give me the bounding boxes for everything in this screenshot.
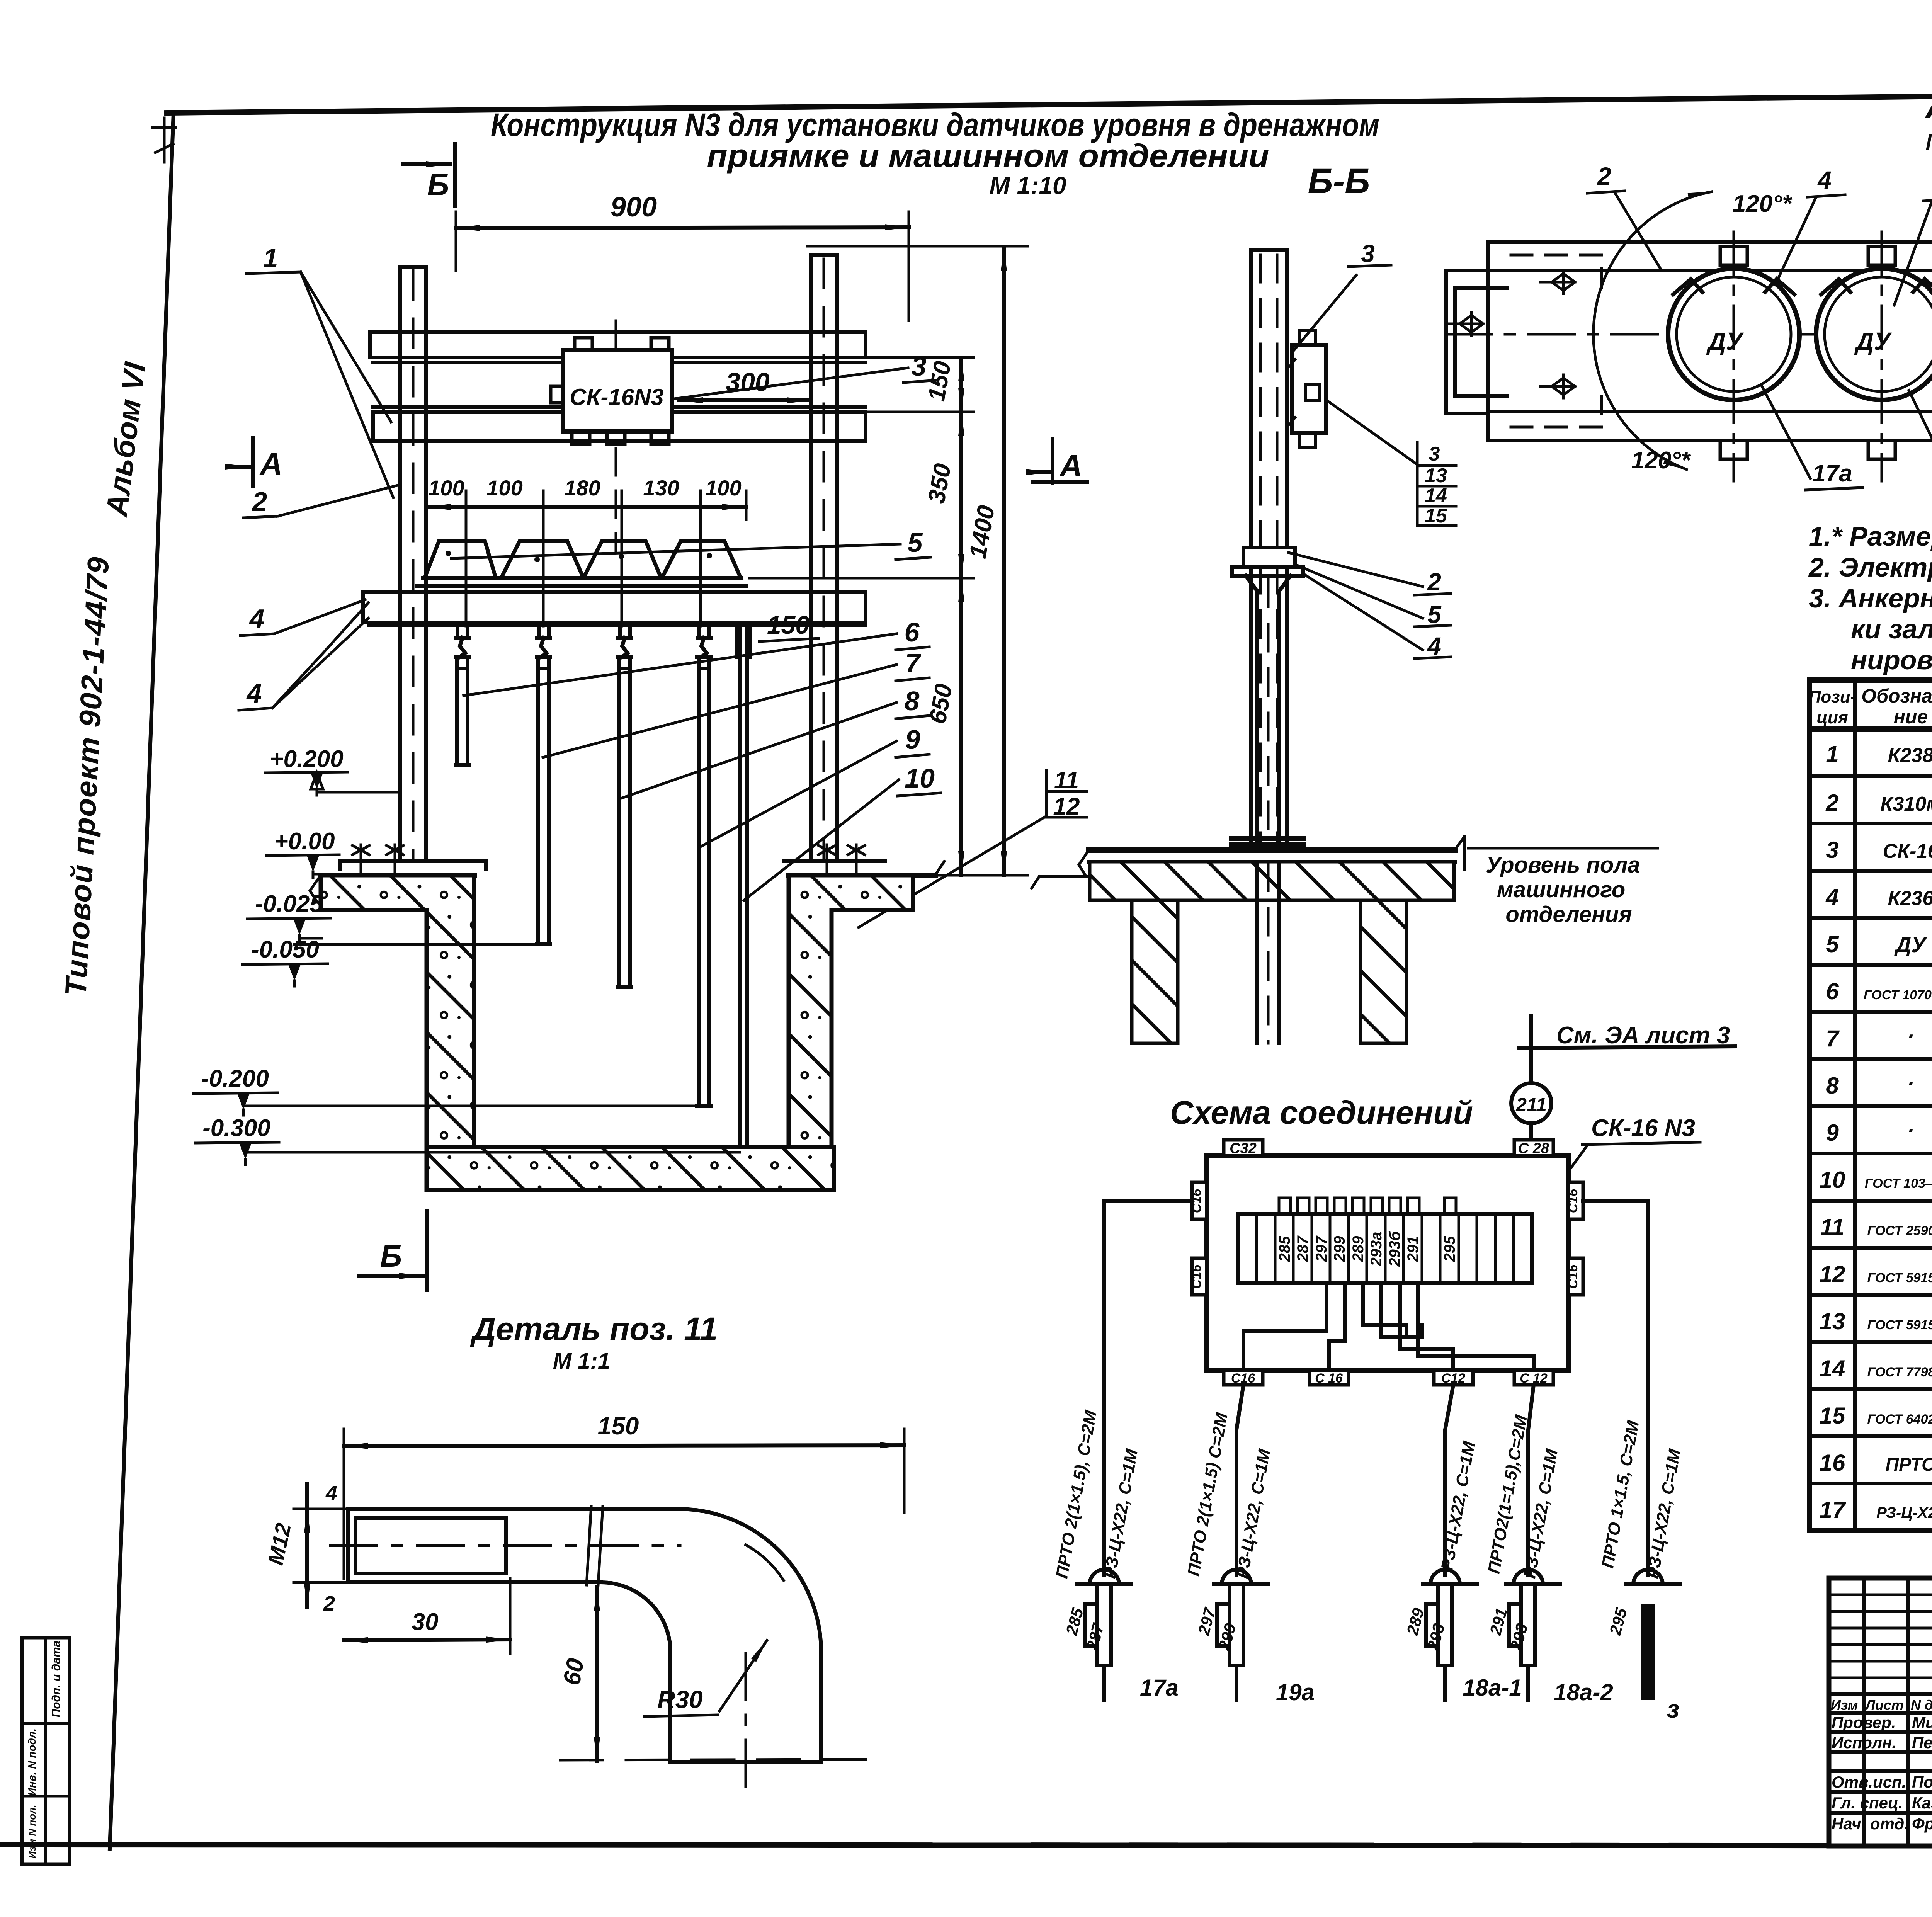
svg-text:1.* Размеры для справок: 1.* Размеры для справок <box>1809 521 1932 551</box>
svg-text:С16: С16 <box>1189 1264 1204 1289</box>
level sensor DU 19a <box>1816 232 1932 481</box>
top border <box>167 90 1932 113</box>
svg-text:3: 3 <box>1361 240 1375 267</box>
svg-text:4: 4 <box>249 604 265 634</box>
cable 4 (18a-2) <box>1528 1385 1534 1575</box>
svg-text:289: 289 <box>1350 1236 1367 1262</box>
left connectors C16 <box>1192 1182 1207 1219</box>
leaders 6 7 8 9 10 <box>464 634 896 696</box>
svg-text:3: 3 <box>912 351 927 381</box>
svg-text:13: 13 <box>1425 464 1447 487</box>
left concrete slab+wall <box>321 875 474 1147</box>
svg-text:211: 211 <box>1515 1094 1547 1116</box>
svg-text:6: 6 <box>1826 978 1839 1004</box>
corner mark <box>153 118 176 162</box>
svg-text:900: 900 <box>611 192 657 223</box>
svg-text:2: 2 <box>323 1592 335 1615</box>
svg-text:М12: М12 <box>263 1521 296 1567</box>
rail K238 lower <box>373 407 866 441</box>
svg-text:А: А <box>1059 448 1082 483</box>
svg-text:16: 16 <box>1820 1450 1845 1476</box>
cable 1 (17a) <box>1104 1201 1192 1575</box>
section mark Б top <box>403 144 455 206</box>
svg-text:С16: С16 <box>1566 1189 1580 1213</box>
svg-text:Альбом VI: Альбом VI <box>99 360 152 519</box>
svg-text:297: 297 <box>1313 1235 1330 1262</box>
strip under sensors <box>417 578 746 586</box>
left end bracket <box>1446 270 1507 413</box>
hanger fittings <box>456 623 711 657</box>
left border <box>110 113 173 1849</box>
shelf K236 <box>363 592 866 625</box>
svg-text:ПРТО: ПРТО <box>1886 1454 1932 1475</box>
right dimension chains <box>750 246 1028 875</box>
svg-text:120°*: 120°* <box>1733 191 1793 217</box>
svg-text:з: з <box>1667 1695 1680 1723</box>
svg-text:293а: 293а <box>1368 1232 1385 1267</box>
svg-text:Нач. отд.: Нач. отд. <box>1832 1815 1909 1833</box>
svg-text:1: 1 <box>263 243 278 273</box>
svg-text:Обозначе-: Обозначе- <box>1861 685 1932 707</box>
svg-text:8: 8 <box>1826 1073 1839 1099</box>
svg-text:17а: 17а <box>1812 460 1852 487</box>
post K310m section <box>1251 250 1287 844</box>
svg-text:Фролов: Фролов <box>1912 1815 1932 1833</box>
svg-text:нировании приямка: нировании приямка <box>1851 645 1932 675</box>
svg-text:100: 100 <box>705 476 741 500</box>
svg-text:2: 2 <box>1427 568 1441 596</box>
svg-text:Лист: Лист <box>1864 1697 1904 1713</box>
svg-text:287: 287 <box>1294 1235 1311 1262</box>
svg-text:4: 4 <box>1817 166 1832 194</box>
svg-text:РЗ-Ц-Х22: РЗ-Ц-Х22 <box>1876 1504 1932 1521</box>
section mark Б bottom <box>359 1211 427 1290</box>
bottom connectors <box>1224 1370 1263 1385</box>
svg-text:10: 10 <box>905 763 935 793</box>
svg-text:293б: 293б <box>1386 1231 1403 1267</box>
svg-text:120°*: 120°* <box>1631 447 1691 474</box>
svg-text:А: А <box>259 447 282 481</box>
connection box outline <box>1207 1156 1568 1370</box>
sensor symbols <box>1077 1570 1680 1700</box>
level sensor DU 17a <box>1668 232 1799 481</box>
svg-text:1400: 1400 <box>964 503 1000 561</box>
floor level label <box>1464 837 1658 869</box>
svg-text:300: 300 <box>726 367 770 397</box>
internal wires <box>1243 1283 1534 1370</box>
svg-text:отделения: отделения <box>1505 902 1632 927</box>
svg-text:С32: С32 <box>1230 1140 1257 1157</box>
svg-text:100: 100 <box>428 476 464 500</box>
pit walls below <box>1132 900 1178 1043</box>
svg-text:2: 2 <box>1825 790 1838 816</box>
svg-text:291: 291 <box>1405 1236 1422 1262</box>
svg-text:150: 150 <box>767 611 810 639</box>
svg-text:РЗ-Ц-Х22, С=1М: РЗ-Ц-Х22, С=1М <box>1233 1447 1274 1580</box>
svg-text:Подп. и дата: Подп. и дата <box>50 1641 63 1718</box>
svg-text:Типовой проект 902-1-44/79: Типовой проект 902-1-44/79 <box>58 555 116 997</box>
svg-text:С16: С16 <box>1566 1264 1580 1289</box>
left grid <box>1864 1578 1932 1846</box>
connector C32 <box>1224 1140 1263 1156</box>
collar and base of post <box>1243 548 1295 567</box>
svg-text:·: · <box>1907 1024 1915 1048</box>
svg-text:295: 295 <box>1441 1236 1458 1262</box>
rail band <box>1488 242 1932 441</box>
svg-text:10: 10 <box>1820 1167 1845 1193</box>
svg-text:ГОСТ 7798-70: ГОСТ 7798-70 <box>1867 1365 1932 1379</box>
svg-text:299: 299 <box>1331 1236 1348 1262</box>
svg-text:К310м: К310м <box>1880 793 1932 815</box>
svg-text:Б: Б <box>380 1239 402 1273</box>
dim M12 <box>294 1509 348 1582</box>
svg-text:7: 7 <box>905 648 922 678</box>
svg-text:9: 9 <box>905 725 920 755</box>
svg-text:СК-16: СК-16 <box>1883 840 1932 862</box>
svg-text:17а: 17а <box>1140 1675 1179 1701</box>
leader 3 <box>674 368 908 399</box>
svg-text:-0.300: -0.300 <box>202 1115 270 1141</box>
svg-text:3. Анкерные болты поз. 11 под: 3. Анкерные болты поз. 11 под стой- <box>1809 583 1932 613</box>
120 deg arc and labels <box>1594 192 1712 469</box>
rail K238 upper <box>370 332 866 362</box>
svg-text:ПРТО 1×1.5, С=2М: ПРТО 1×1.5, С=2М <box>1598 1419 1643 1570</box>
svg-text:ДУ: ДУ <box>1706 327 1744 355</box>
svg-text:М 1:5: М 1:5 <box>1925 129 1932 155</box>
svg-text:13: 13 <box>1820 1308 1845 1334</box>
svg-text:ки заложить при основном бето-: ки заложить при основном бето- <box>1851 614 1932 644</box>
svg-text:180: 180 <box>564 476 600 500</box>
svg-text:+0.00: +0.00 <box>274 828 335 855</box>
svg-text:12: 12 <box>1820 1261 1845 1287</box>
leader 5 <box>451 544 900 558</box>
svg-text:6: 6 <box>905 617 920 647</box>
svg-text:7: 7 <box>1826 1026 1840 1051</box>
svg-text:Отв.исп.: Отв.исп. <box>1832 1773 1906 1791</box>
junction box side view <box>1292 345 1326 433</box>
svg-text:приямке и машинном отделении: приямке и машинном отделении <box>707 138 1269 174</box>
strip poz.10 <box>740 627 747 1152</box>
svg-text:N докум.: N докум. <box>1911 1697 1932 1713</box>
svg-text:К236: К236 <box>1888 887 1932 910</box>
level sensors (trapezoids) <box>425 541 496 578</box>
svg-text:3: 3 <box>1826 837 1838 863</box>
svg-text:14: 14 <box>1425 485 1447 507</box>
bottom-left mini table <box>22 1638 70 1864</box>
svg-text:ПРТО 2(1×1.5), С=2М: ПРТО 2(1×1.5), С=2М <box>1052 1408 1100 1580</box>
svg-text:19а: 19а <box>1276 1679 1315 1705</box>
dim 150 <box>344 1429 904 1579</box>
svg-text:ПРТО2(1=1.5),С=2М: ПРТО2(1=1.5),С=2М <box>1484 1413 1531 1575</box>
pipe through floor <box>1257 862 1279 1043</box>
svg-text:·: · <box>1907 1118 1915 1142</box>
svg-text:+0.200: +0.200 <box>269 746 343 772</box>
svg-text:2: 2 <box>252 486 267 517</box>
svg-text:350: 350 <box>923 462 956 506</box>
left margin vertical texts <box>58 360 152 997</box>
rotated terminal numbers at sensors <box>1062 1606 1631 1653</box>
tube poz.7 <box>537 657 550 944</box>
post K310m right <box>811 255 837 861</box>
svg-text:А-А: А-А <box>1925 86 1932 126</box>
base plate <box>1232 839 1303 844</box>
svg-text:18а-2: 18а-2 <box>1554 1679 1613 1705</box>
base plates and anchor bolts <box>340 861 486 869</box>
svg-text:ГОСТ 103— 76: ГОСТ 103— 76 <box>1865 1176 1932 1191</box>
lower labels 17a 19a 18a-1 18a-2 <box>1762 386 1862 490</box>
table grid <box>1810 680 1932 1531</box>
svg-text:-0.050: -0.050 <box>251 936 319 963</box>
svg-text:2: 2 <box>1597 162 1611 190</box>
svg-text:4: 4 <box>1427 632 1441 660</box>
svg-text:2. Электрод Э-42 ГОСТ 9467-6: 2. Электрод Э-42 ГОСТ 9467-60 <box>1808 552 1932 582</box>
svg-text:ГОСТ 5915-70: ГОСТ 5915-70 <box>1867 1271 1932 1285</box>
junction box CK-16 N3 <box>563 350 672 432</box>
right concrete slab+wall <box>789 875 913 1147</box>
svg-text:150: 150 <box>598 1412 639 1440</box>
svg-text:100: 100 <box>486 476 522 500</box>
pit floor slab <box>427 1147 834 1190</box>
svg-text:15: 15 <box>1425 505 1447 527</box>
cable 2 (19a) <box>1236 1385 1243 1575</box>
svg-text:295: 295 <box>1606 1606 1631 1637</box>
svg-text:ПРТО 2(1×1.5) С=2М: ПРТО 2(1×1.5) С=2М <box>1184 1411 1231 1577</box>
svg-text:3: 3 <box>1429 443 1440 465</box>
svg-text:Исполн.: Исполн. <box>1832 1733 1896 1752</box>
svg-text:СК-16N3: СК-16N3 <box>570 384 664 410</box>
svg-text:Изм N пол.: Изм N пол. <box>26 1805 38 1858</box>
svg-text:11: 11 <box>1820 1214 1844 1240</box>
svg-text:150: 150 <box>923 359 956 403</box>
svg-text:Схема соединений: Схема соединений <box>1170 1094 1473 1131</box>
main title <box>491 107 1379 199</box>
leaders 2 5 4 <box>1289 553 1451 595</box>
dim 30 <box>509 1579 512 1654</box>
node 211 <box>1511 1083 1551 1123</box>
svg-text:18а-1: 18а-1 <box>1463 1675 1522 1701</box>
leader 3 top <box>1294 265 1391 350</box>
svg-text:М 1:10: М 1:10 <box>989 172 1066 199</box>
svg-text:ГОСТ 6402-70: ГОСТ 6402-70 <box>1867 1412 1932 1427</box>
svg-text:Казуров: Казуров <box>1912 1794 1932 1812</box>
svg-text:ГОСТ 5915-70: ГОСТ 5915-70 <box>1867 1318 1932 1332</box>
centerline of box <box>615 321 617 553</box>
section marks A <box>229 438 253 486</box>
svg-text:Изм: Изм <box>1831 1697 1858 1713</box>
svg-text:Б: Б <box>427 167 449 202</box>
svg-text:4: 4 <box>1825 884 1838 910</box>
right connectors C16 <box>1568 1182 1583 1219</box>
svg-text:-0.025: -0.025 <box>255 891 323 917</box>
machine floor <box>1089 847 1455 853</box>
svg-text:ние: ние <box>1894 706 1928 728</box>
svg-text:1: 1 <box>1826 741 1838 767</box>
svg-text:17: 17 <box>1820 1497 1846 1523</box>
svg-text:4: 4 <box>246 678 262 708</box>
sensor spacing dims 100 100 180 130 100 <box>427 491 746 626</box>
svg-text:Мизяк: Мизяк <box>1912 1713 1932 1732</box>
svg-text:С 16: С 16 <box>1315 1371 1343 1386</box>
svg-text:9: 9 <box>1826 1120 1839 1146</box>
svg-text:Педан: Педан <box>1912 1733 1932 1752</box>
svg-text:650: 650 <box>924 682 957 726</box>
horizontal centerline <box>1445 333 1932 336</box>
floor hatched band <box>1090 862 1454 900</box>
svg-text:С 28: С 28 <box>1518 1140 1549 1157</box>
rotated cable labels <box>1052 1408 1684 1580</box>
svg-text:ГОСТ 10704-75: ГОСТ 10704-75 <box>1864 988 1932 1002</box>
svg-text:Гл. спец.: Гл. спец. <box>1832 1794 1903 1812</box>
svg-text:285: 285 <box>1276 1236 1293 1262</box>
bend arc <box>601 1509 821 1652</box>
svg-text:машинного: машинного <box>1497 877 1626 902</box>
svg-text:30: 30 <box>412 1609 439 1635</box>
tube poz.8 <box>618 657 631 987</box>
dim 300 <box>679 398 811 402</box>
svg-text:14: 14 <box>1820 1356 1845 1381</box>
svg-text:РЗ-Ц-Х22, С=1М: РЗ-Ц-Х22, С=1М <box>1100 1447 1141 1580</box>
bottom border <box>1 1845 1932 1846</box>
cable 3 (18a-1) <box>1445 1385 1453 1575</box>
svg-text:ДУ: ДУ <box>1854 327 1892 355</box>
svg-text:5: 5 <box>1427 600 1442 628</box>
svg-text:Б-Б: Б-Б <box>1308 162 1370 201</box>
svg-text:130: 130 <box>643 476 679 500</box>
svg-text:5: 5 <box>1826 931 1839 957</box>
svg-text:4: 4 <box>325 1482 337 1505</box>
tube poz.9 <box>697 657 711 1106</box>
svg-text:ция: ция <box>1816 708 1848 727</box>
svg-text:К238: К238 <box>1888 744 1932 767</box>
svg-text:Деталь поз. 11: Деталь поз. 11 <box>470 1311 718 1347</box>
svg-text:СК-16 N3: СК-16 N3 <box>1591 1115 1695 1141</box>
stack 3 13 14 15 <box>1326 400 1419 466</box>
svg-text:15: 15 <box>1820 1403 1846 1429</box>
level marks left <box>193 746 740 1165</box>
svg-text:60: 60 <box>558 1656 589 1687</box>
terminal strip <box>1238 1214 1532 1283</box>
post K310m left <box>400 267 426 861</box>
svg-text:ДУ: ДУ <box>1894 932 1927 957</box>
svg-text:5: 5 <box>908 527 923 558</box>
svg-text:М 1:1: М 1:1 <box>553 1349 610 1374</box>
connector C28 <box>1514 1140 1553 1156</box>
svg-text:Инв. N подл.: Инв. N подл. <box>26 1728 38 1796</box>
svg-text:Пономарев: Пономарев <box>1912 1773 1932 1791</box>
svg-text:Пози-: Пози- <box>1809 687 1856 706</box>
svg-text:11: 11 <box>1054 767 1079 794</box>
svg-text:-0.200: -0.200 <box>201 1065 269 1092</box>
wire to box <box>1529 1048 1533 1156</box>
svg-text:8: 8 <box>905 686 920 716</box>
svg-text:R30: R30 <box>657 1686 702 1713</box>
cable 5 (ground) <box>1583 1201 1648 1575</box>
tube poz.6 <box>456 657 469 765</box>
dim 900 <box>456 212 909 321</box>
dim 60 <box>595 1587 599 1761</box>
svg-text:Уровень пола: Уровень пола <box>1486 852 1640 878</box>
svg-text:ГОСТ 2590-71: ГОСТ 2590-71 <box>1867 1223 1932 1238</box>
anchor bolt body <box>348 1509 678 1582</box>
svg-text:Провер.: Провер. <box>1832 1713 1896 1732</box>
svg-text:·: · <box>1907 1071 1915 1095</box>
machine floor lines <box>321 873 935 878</box>
